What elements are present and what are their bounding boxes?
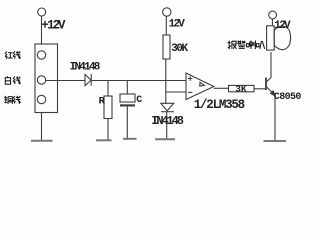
- svg-text:V: V: [178, 18, 185, 30]
- svg-text:1/2LM358: 1/2LM358: [194, 98, 245, 112]
- svg-text:IN4148: IN4148: [151, 114, 184, 128]
- svg-text:C: C: [136, 95, 142, 106]
- svg-text:V: V: [58, 19, 66, 33]
- svg-text:3K: 3K: [235, 83, 247, 94]
- svg-text:R: R: [99, 96, 106, 108]
- svg-text:C8050: C8050: [274, 92, 302, 103]
- svg-text:V: V: [284, 20, 291, 32]
- svg-text:K: K: [182, 43, 189, 55]
- svg-text:IN4148: IN4148: [70, 62, 101, 74]
